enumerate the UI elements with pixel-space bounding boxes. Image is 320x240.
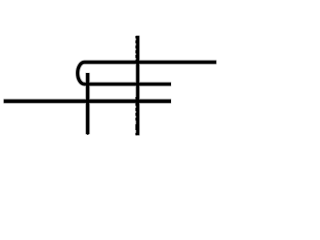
wire bottom horizontal rail <box>4 99 171 102</box>
wire hairpin loop arc halo <box>78 62 85 84</box>
dashed boundary line B dash tick above bottom rail <box>135 97 137 99</box>
wire middle horizontal rail halo <box>85 82 172 87</box>
wire vertical conductor A halo <box>85 73 90 135</box>
wire vertical conductor A <box>86 73 89 134</box>
wire top horizontal rail <box>85 61 217 64</box>
wire bottom horizontal rail halo <box>4 99 172 104</box>
dashed boundary line B solid core <box>136 36 139 136</box>
wire middle horizontal rail <box>85 83 172 86</box>
wire hairpin loop arc <box>78 62 85 84</box>
wire top horizontal rail halo <box>85 60 217 65</box>
wire vertical conductor A tapered tip <box>87 134 89 135</box>
dashed boundary line B dash ticks lower <box>135 103 137 135</box>
dashed boundary line B halo <box>135 36 140 136</box>
soft halo layer emulating scanner blur <box>4 36 217 136</box>
dashed boundary line B dash ticks upper <box>135 36 137 63</box>
